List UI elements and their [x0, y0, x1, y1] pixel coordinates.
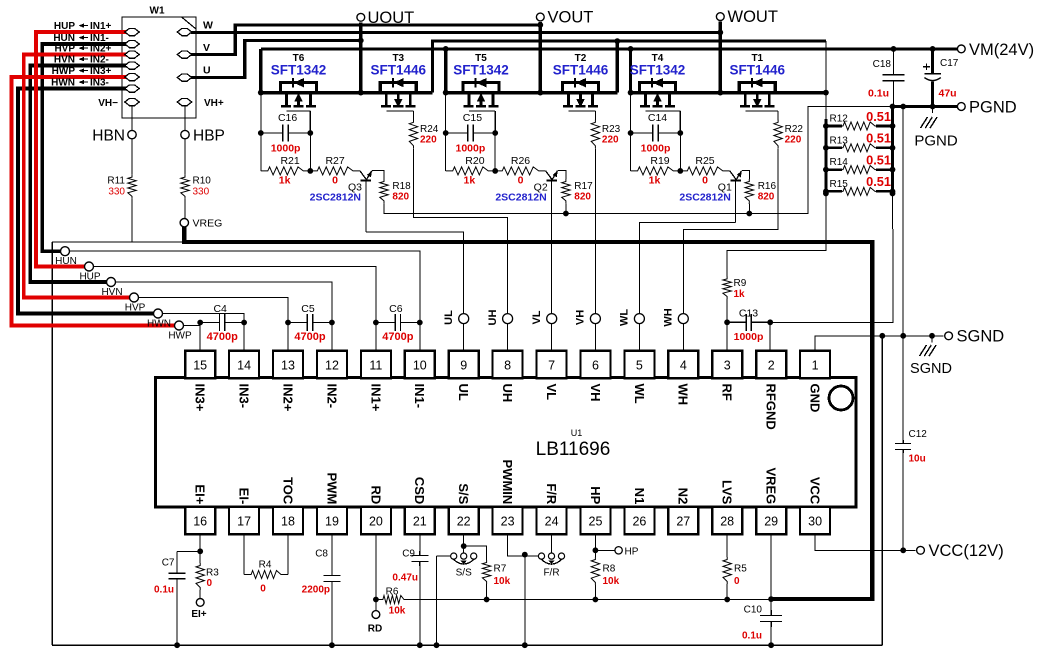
svg-text:820: 820: [574, 192, 591, 203]
svg-text:21: 21: [413, 515, 427, 529]
svg-text:2200p: 2200p: [302, 585, 330, 596]
svg-text:IN2+: IN2+: [280, 384, 295, 412]
svg-text:V: V: [203, 42, 210, 54]
svg-text:IN1-: IN1-: [412, 384, 427, 409]
svg-text:1k: 1k: [464, 175, 476, 187]
svg-text:VREG: VREG: [193, 218, 223, 230]
svg-text:0: 0: [332, 175, 338, 187]
svg-text:0.51: 0.51: [866, 109, 891, 124]
svg-text:RD: RD: [368, 624, 382, 635]
svg-text:PGND: PGND: [969, 98, 1017, 116]
svg-text:24: 24: [545, 515, 559, 529]
svg-text:R15: R15: [830, 179, 849, 190]
svg-text:RD: RD: [368, 486, 383, 505]
svg-text:WH: WH: [676, 384, 691, 406]
svg-text:13: 13: [281, 359, 295, 373]
svg-text:R25: R25: [695, 155, 714, 167]
svg-text:0.47u: 0.47u: [392, 573, 418, 584]
svg-text:R23: R23: [602, 124, 621, 135]
svg-text:4: 4: [680, 359, 687, 373]
svg-text:IN1+: IN1+: [368, 384, 383, 412]
svg-text:N2: N2: [676, 488, 691, 505]
svg-text:PGND: PGND: [914, 133, 958, 150]
svg-text:330: 330: [108, 187, 125, 198]
svg-text:15: 15: [193, 359, 207, 373]
svg-text:5: 5: [636, 359, 643, 373]
svg-text:WL: WL: [632, 384, 647, 404]
svg-text:HWP: HWP: [168, 331, 192, 342]
svg-text:LB11696: LB11696: [536, 439, 611, 460]
svg-text:GND: GND: [808, 384, 823, 413]
svg-text:10u: 10u: [909, 454, 926, 465]
svg-text:PWM: PWM: [324, 473, 339, 505]
svg-text:UL: UL: [456, 384, 471, 401]
svg-text:26: 26: [632, 515, 646, 529]
svg-text:R8: R8: [603, 564, 616, 575]
svg-text:U: U: [203, 65, 211, 77]
svg-text:R20: R20: [465, 155, 484, 167]
svg-text:VM(24V): VM(24V): [969, 41, 1034, 59]
svg-text:W1: W1: [150, 6, 165, 17]
svg-text:29: 29: [764, 515, 778, 529]
svg-text:IN2-: IN2-: [324, 384, 339, 409]
svg-text:1000p: 1000p: [734, 331, 764, 343]
svg-text:UL: UL: [443, 310, 455, 325]
svg-text:1000p: 1000p: [271, 143, 301, 155]
svg-text:HUP: HUP: [54, 21, 75, 32]
svg-text:220: 220: [785, 135, 802, 146]
svg-text:C13: C13: [739, 308, 758, 320]
svg-text:R4: R4: [259, 560, 272, 571]
svg-text:R22: R22: [785, 124, 804, 135]
svg-text:10k: 10k: [494, 576, 511, 587]
svg-text:F/R: F/R: [543, 568, 559, 579]
svg-text:2: 2: [768, 359, 775, 373]
svg-text:RF: RF: [720, 384, 735, 401]
svg-text:0.51: 0.51: [866, 152, 891, 167]
svg-text:4700p: 4700p: [207, 331, 238, 343]
svg-text:28: 28: [720, 515, 734, 529]
svg-text:R12: R12: [830, 114, 849, 125]
svg-text:F/R: F/R: [544, 483, 559, 505]
svg-text:EI+: EI+: [193, 484, 208, 504]
svg-text:HP: HP: [625, 546, 639, 557]
svg-text:HVP: HVP: [125, 303, 146, 314]
svg-text:22: 22: [457, 515, 471, 529]
svg-text:UH: UH: [500, 384, 515, 403]
svg-text:VCC(12V): VCC(12V): [929, 542, 1004, 560]
svg-text:SFT1446: SFT1446: [730, 63, 786, 78]
svg-text:S/S: S/S: [456, 568, 472, 579]
svg-text:10: 10: [413, 359, 427, 373]
svg-text:R21: R21: [280, 155, 299, 167]
svg-text:0.1u: 0.1u: [868, 88, 889, 100]
svg-text:R11: R11: [107, 176, 125, 187]
svg-text:W: W: [203, 20, 213, 32]
svg-text:VL: VL: [544, 384, 559, 401]
svg-text:1000p: 1000p: [641, 143, 671, 155]
svg-text:0.1u: 0.1u: [742, 631, 762, 642]
svg-text:R7: R7: [494, 564, 507, 575]
svg-text:IN3+: IN3+: [193, 384, 208, 412]
svg-text:C10: C10: [744, 605, 763, 616]
svg-text:C6: C6: [389, 303, 403, 315]
svg-text:25: 25: [589, 515, 603, 529]
svg-text:IN3-: IN3-: [237, 384, 252, 409]
svg-text:1k: 1k: [649, 175, 661, 187]
svg-text:C4: C4: [213, 303, 227, 315]
svg-text:17: 17: [237, 515, 251, 529]
svg-text:27: 27: [676, 515, 690, 529]
svg-text:VREG: VREG: [764, 467, 779, 504]
svg-text:8: 8: [504, 359, 511, 373]
svg-text:HP: HP: [588, 486, 603, 504]
svg-text:R6: R6: [386, 587, 399, 598]
svg-text:VH: VH: [575, 310, 587, 325]
svg-text:IN1-: IN1-: [90, 33, 109, 44]
svg-text:0.1u: 0.1u: [154, 585, 174, 596]
svg-text:C5: C5: [301, 303, 315, 315]
svg-text:VOUT: VOUT: [548, 9, 594, 27]
svg-text:14: 14: [237, 359, 251, 373]
svg-text:EI+: EI+: [191, 609, 206, 620]
svg-text:WH: WH: [663, 308, 675, 326]
svg-text:R17: R17: [574, 181, 593, 192]
svg-text:R24: R24: [420, 124, 439, 135]
svg-text:2SC2812N: 2SC2812N: [679, 192, 730, 204]
svg-text:C14: C14: [648, 112, 667, 124]
svg-text:C18: C18: [873, 59, 892, 70]
svg-text:7: 7: [548, 359, 555, 373]
svg-text:HBN: HBN: [92, 127, 125, 144]
svg-text:EI-: EI-: [237, 488, 252, 505]
svg-text:C17: C17: [940, 58, 959, 69]
svg-text:R26: R26: [511, 155, 530, 167]
svg-text:HWN: HWN: [51, 78, 75, 89]
svg-text:IN2+: IN2+: [90, 44, 112, 55]
svg-text:0.51: 0.51: [866, 131, 891, 146]
svg-text:10k: 10k: [603, 576, 620, 587]
svg-text:VCC: VCC: [808, 477, 823, 505]
svg-text:C8: C8: [315, 549, 328, 560]
svg-text:HUN: HUN: [55, 256, 77, 267]
svg-text:SFT1342: SFT1342: [271, 63, 327, 78]
svg-text:WOUT: WOUT: [728, 8, 778, 26]
svg-text:VH: VH: [588, 384, 603, 402]
svg-text:4700p: 4700p: [294, 331, 325, 343]
svg-text:HVN: HVN: [101, 287, 122, 298]
svg-text:0: 0: [207, 578, 213, 589]
svg-text:HWN: HWN: [147, 319, 171, 330]
svg-text:C15: C15: [463, 112, 482, 124]
svg-text:C12: C12: [909, 429, 928, 440]
svg-text:R19: R19: [650, 155, 669, 167]
svg-text:HVP: HVP: [54, 44, 75, 55]
svg-text:820: 820: [758, 192, 775, 203]
svg-text:U1: U1: [571, 428, 583, 438]
svg-text:SFT1342: SFT1342: [453, 63, 509, 78]
svg-text:HUP: HUP: [79, 272, 100, 283]
svg-text:2SC2812N: 2SC2812N: [495, 192, 546, 204]
svg-text:C16: C16: [278, 112, 297, 124]
svg-text:11: 11: [369, 359, 382, 373]
svg-text:R16: R16: [758, 181, 777, 192]
svg-text:47u: 47u: [939, 88, 957, 100]
svg-text:R3: R3: [206, 568, 219, 579]
svg-text:0.51: 0.51: [866, 174, 891, 189]
svg-text:HVN: HVN: [54, 55, 75, 66]
svg-text:TOC: TOC: [280, 477, 295, 505]
svg-text:30: 30: [808, 515, 822, 529]
svg-text:CSD: CSD: [412, 477, 427, 504]
svg-text:12: 12: [325, 359, 339, 373]
svg-text:SFT1446: SFT1446: [371, 63, 427, 78]
svg-text:16: 16: [193, 515, 207, 529]
svg-text:0: 0: [518, 175, 524, 187]
svg-text:330: 330: [193, 187, 210, 198]
svg-text:1000p: 1000p: [456, 143, 486, 155]
svg-text:UOUT: UOUT: [368, 9, 415, 27]
svg-text:SFT1446: SFT1446: [553, 63, 609, 78]
svg-text:4700p: 4700p: [382, 331, 413, 343]
svg-text:C9: C9: [402, 549, 415, 560]
svg-text:2SC2812N: 2SC2812N: [310, 192, 361, 204]
svg-text:0: 0: [702, 175, 708, 187]
svg-text:IN3-: IN3-: [90, 78, 109, 89]
svg-text:9: 9: [460, 359, 467, 373]
svg-text:R9: R9: [734, 278, 747, 289]
svg-text:LVS: LVS: [720, 480, 735, 505]
svg-text:HBP: HBP: [193, 127, 225, 144]
svg-text:1k: 1k: [279, 175, 291, 187]
svg-text:VH−: VH−: [98, 98, 118, 109]
svg-text:220: 220: [602, 135, 619, 146]
svg-text:R5: R5: [734, 564, 747, 575]
svg-text:PWMIN: PWMIN: [500, 460, 515, 505]
svg-text:SFT1342: SFT1342: [630, 63, 686, 78]
svg-text:R14: R14: [830, 157, 849, 168]
svg-text:IN3+: IN3+: [90, 66, 112, 77]
svg-text:R18: R18: [392, 181, 411, 192]
svg-text:0: 0: [260, 584, 266, 595]
svg-text:R10: R10: [193, 176, 212, 187]
svg-text:S/S: S/S: [456, 483, 471, 504]
svg-text:R13: R13: [830, 135, 849, 146]
svg-text:VH+: VH+: [204, 98, 224, 109]
svg-text:HWP: HWP: [52, 66, 76, 77]
svg-text:C7: C7: [162, 558, 175, 569]
svg-text:18: 18: [281, 515, 295, 529]
svg-text:19: 19: [325, 515, 339, 529]
svg-text:20: 20: [369, 515, 383, 529]
svg-text:R27: R27: [325, 155, 344, 167]
svg-text:1: 1: [812, 359, 819, 373]
svg-text:23: 23: [501, 515, 515, 529]
svg-text:VL: VL: [531, 310, 543, 324]
svg-text:820: 820: [392, 192, 409, 203]
svg-text:IN1+: IN1+: [90, 21, 112, 32]
svg-text:3: 3: [724, 359, 731, 373]
svg-text:1k: 1k: [734, 289, 746, 300]
svg-text:IN2-: IN2-: [90, 55, 109, 66]
svg-text:220: 220: [420, 135, 437, 146]
svg-text:N1: N1: [632, 488, 647, 505]
svg-text:RFGND: RFGND: [764, 384, 779, 430]
svg-text:SGND: SGND: [957, 328, 1005, 346]
svg-text:HUN: HUN: [53, 33, 75, 44]
svg-text:10k: 10k: [389, 606, 406, 617]
svg-text:6: 6: [592, 359, 599, 373]
svg-text:SGND: SGND: [910, 361, 952, 377]
svg-text:0: 0: [734, 576, 740, 587]
svg-text:WL: WL: [619, 309, 631, 326]
svg-text:UH: UH: [487, 310, 499, 326]
